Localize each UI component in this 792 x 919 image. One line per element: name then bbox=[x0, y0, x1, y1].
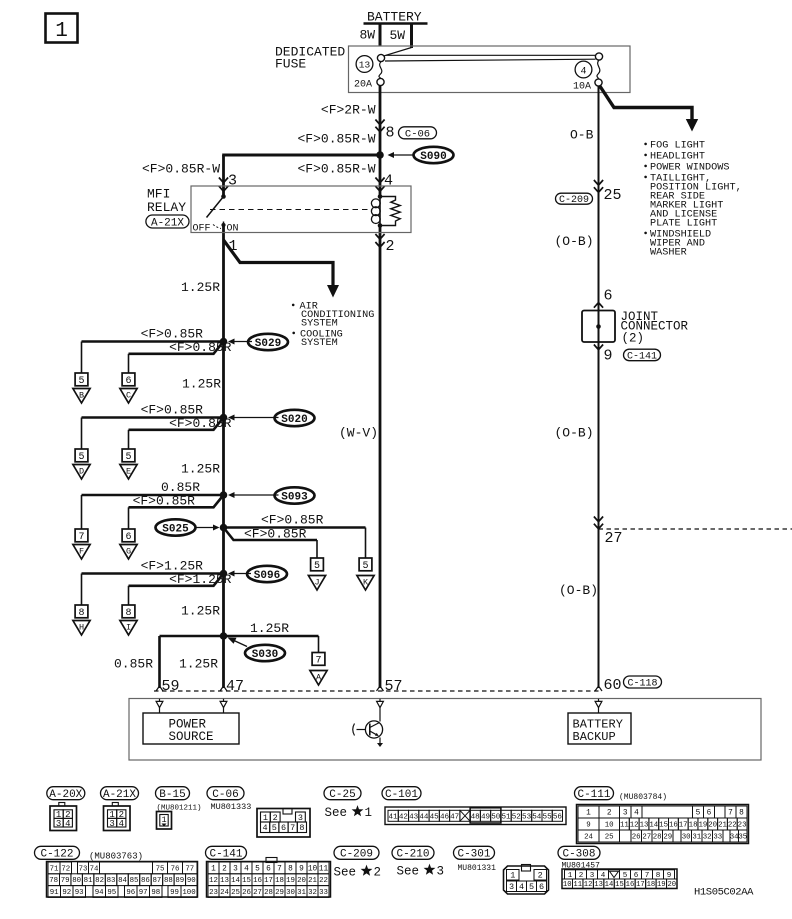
svg-text:C-141: C-141 bbox=[209, 849, 242, 861]
terminal 6 bbox=[122, 373, 135, 387]
joint connector entry chevron bbox=[594, 303, 603, 308]
wire label (F)0.85R S025-1 bbox=[261, 513, 324, 528]
connector C-25 note bbox=[325, 805, 373, 820]
svg-text:80: 80 bbox=[72, 877, 81, 885]
svg-text:5: 5 bbox=[78, 376, 84, 387]
wire foot 59 bbox=[156, 686, 163, 691]
svg-text:4: 4 bbox=[384, 173, 393, 190]
terminal 6 bbox=[122, 529, 135, 543]
svg-text:C-06: C-06 bbox=[405, 128, 430, 140]
svg-text:G: G bbox=[126, 547, 131, 557]
svg-text:C-209: C-209 bbox=[340, 849, 373, 861]
connector A-21X capsule bbox=[146, 215, 189, 229]
svg-text:8: 8 bbox=[299, 823, 304, 833]
terminal 5 K bbox=[359, 558, 372, 572]
power source box bbox=[143, 713, 239, 744]
svg-text:<F>0.85R-W: <F>0.85R-W bbox=[142, 162, 220, 177]
svg-text:91: 91 bbox=[50, 889, 59, 897]
svg-text:48: 48 bbox=[471, 813, 481, 821]
svg-text:88: 88 bbox=[164, 877, 173, 885]
svg-text:1: 1 bbox=[510, 871, 515, 881]
svg-text:FUSE: FUSE bbox=[275, 57, 306, 72]
svg-text:B-15: B-15 bbox=[159, 789, 185, 801]
svg-text:42: 42 bbox=[399, 813, 409, 821]
wire: S029 branch 1 bbox=[82, 342, 224, 374]
svg-text:<F>2R-W: <F>2R-W bbox=[321, 103, 376, 118]
svg-text:85: 85 bbox=[130, 877, 139, 885]
svg-text:(MU803784): (MU803784) bbox=[619, 793, 667, 802]
wire foot 47 bbox=[220, 686, 227, 691]
connector A-20X capsule bbox=[47, 787, 85, 801]
svg-text:17: 17 bbox=[264, 877, 273, 885]
svg-text:1.25R: 1.25R bbox=[181, 280, 220, 295]
drawing number bbox=[694, 887, 754, 899]
pin 3 bbox=[228, 173, 237, 190]
svg-text:24: 24 bbox=[220, 889, 229, 897]
ground triangle J bbox=[308, 576, 325, 591]
svg-text:86: 86 bbox=[141, 877, 150, 885]
splice S096 callout bbox=[228, 566, 287, 582]
wire label &lt;F&gt;1.25R bbox=[141, 559, 204, 574]
svg-text:52: 52 bbox=[512, 813, 522, 821]
connector C-308 capsule bbox=[558, 846, 600, 860]
joint connector box bbox=[582, 311, 615, 343]
MFI relay box bbox=[191, 186, 411, 233]
connector C-209 legend capsule bbox=[334, 846, 379, 860]
svg-text:C-06: C-06 bbox=[212, 789, 238, 801]
svg-text:13: 13 bbox=[594, 881, 603, 889]
pin 47 bbox=[226, 678, 244, 695]
svg-text:1: 1 bbox=[55, 20, 68, 43]
connector C-308 part number bbox=[562, 862, 601, 871]
ground triangle C bbox=[120, 389, 137, 404]
svg-text:82: 82 bbox=[95, 877, 104, 885]
svg-text:22: 22 bbox=[319, 877, 328, 885]
svg-text:27: 27 bbox=[253, 889, 262, 897]
svg-text:3: 3 bbox=[109, 819, 114, 829]
svg-text:20: 20 bbox=[297, 877, 306, 885]
connector C-101 pinout bbox=[385, 807, 566, 825]
svg-text:6: 6 bbox=[707, 810, 712, 818]
svg-text:H: H bbox=[79, 623, 84, 633]
wire label 1.25R #3 bbox=[181, 462, 220, 477]
svg-text:2: 2 bbox=[607, 810, 612, 818]
svg-text:7: 7 bbox=[78, 532, 84, 543]
relay ON contact bbox=[213, 222, 226, 233]
svg-text:3: 3 bbox=[509, 882, 514, 892]
relay switch pivot bbox=[221, 194, 226, 199]
connector C-308 pinout bbox=[562, 869, 677, 889]
svg-text:11: 11 bbox=[573, 881, 582, 889]
wire foot 60 bbox=[595, 686, 602, 691]
wire: S096 branch 1 bbox=[82, 574, 224, 606]
svg-text:7: 7 bbox=[277, 866, 282, 874]
wire: S020 branch 2 bbox=[129, 418, 224, 450]
svg-text:25: 25 bbox=[604, 187, 622, 204]
svg-text:C-141: C-141 bbox=[627, 351, 657, 362]
connector A-21X capsule bbox=[101, 787, 139, 801]
svg-text:1: 1 bbox=[586, 810, 591, 818]
flow chevrons at pin 2 bbox=[375, 234, 384, 247]
svg-text:ON: ON bbox=[227, 224, 239, 235]
connector pin foot 59 bbox=[156, 699, 163, 708]
svg-text:4: 4 bbox=[244, 866, 249, 874]
pin 60 bbox=[604, 677, 622, 694]
svg-text:13: 13 bbox=[359, 60, 371, 71]
splice S093 callout bbox=[228, 487, 315, 503]
connector B-15 part number bbox=[157, 805, 202, 813]
svg-text:23: 23 bbox=[209, 889, 218, 897]
fuse 4 element bbox=[595, 53, 603, 86]
svg-text:14: 14 bbox=[649, 822, 658, 830]
splice S030 node bbox=[220, 632, 228, 640]
svg-text:18: 18 bbox=[647, 881, 656, 889]
relay coil top node bbox=[378, 194, 383, 199]
pin 27 bbox=[605, 530, 623, 547]
page break dashed line right bbox=[599, 528, 792, 530]
svg-text:32: 32 bbox=[308, 889, 317, 897]
svg-text:3: 3 bbox=[298, 813, 303, 823]
svg-text:4: 4 bbox=[519, 882, 524, 892]
wire label O-B bbox=[570, 128, 594, 143]
svg-text:17: 17 bbox=[636, 881, 645, 889]
splice S020 callout bbox=[228, 410, 315, 426]
svg-text:<F>0.85R: <F>0.85R bbox=[261, 513, 324, 528]
connector C-122 pinout bbox=[47, 862, 198, 898]
connector C-210 capsule bbox=[392, 846, 434, 860]
svg-text:17: 17 bbox=[679, 822, 688, 830]
svg-text:55: 55 bbox=[543, 813, 553, 821]
svg-text:4: 4 bbox=[580, 66, 586, 77]
svg-text:C: C bbox=[126, 391, 131, 401]
svg-text:13: 13 bbox=[640, 822, 649, 830]
wire: S030 right branch bbox=[224, 636, 319, 653]
connector C-06 part number bbox=[211, 802, 252, 812]
svg-text:3: 3 bbox=[228, 173, 237, 190]
battery B+ label bbox=[367, 10, 422, 25]
svg-text:31: 31 bbox=[297, 889, 306, 897]
svg-text:3: 3 bbox=[623, 810, 628, 818]
svg-text:19: 19 bbox=[657, 881, 666, 889]
svg-text:SOURCE: SOURCE bbox=[169, 730, 214, 744]
svg-text:57: 57 bbox=[385, 678, 403, 695]
svg-text:C-210: C-210 bbox=[396, 849, 429, 861]
svg-text:E: E bbox=[126, 467, 131, 477]
connector A-20X pinout bbox=[50, 803, 77, 831]
svg-text:56: 56 bbox=[553, 813, 563, 821]
svg-text:(2): (2) bbox=[622, 332, 645, 346]
svg-text:A-21X: A-21X bbox=[103, 789, 136, 801]
svg-text:41: 41 bbox=[389, 813, 399, 821]
svg-text:75: 75 bbox=[156, 865, 165, 873]
svg-text:4: 4 bbox=[263, 823, 268, 833]
svg-text:25: 25 bbox=[605, 834, 614, 842]
svg-text:12: 12 bbox=[209, 877, 218, 885]
svg-text:47: 47 bbox=[450, 813, 459, 821]
splice S029 node bbox=[220, 338, 228, 346]
svg-text:23: 23 bbox=[738, 822, 747, 830]
svg-text:44: 44 bbox=[419, 813, 429, 821]
svg-text:2: 2 bbox=[386, 238, 395, 255]
svg-text:100: 100 bbox=[182, 889, 195, 897]
fusible link 5W lead bbox=[390, 24, 412, 49]
wire label &lt;F&gt;0.85R bbox=[169, 416, 232, 431]
svg-text:9: 9 bbox=[604, 348, 613, 365]
svg-text:S093: S093 bbox=[281, 491, 308, 503]
relay ON label bbox=[227, 224, 239, 235]
pin 25 bbox=[604, 187, 622, 204]
svg-text:1.25R: 1.25R bbox=[182, 377, 221, 392]
wire: S093 branch 1 bbox=[82, 495, 224, 529]
svg-text:A-21X: A-21X bbox=[151, 217, 184, 229]
wire: S020 branch 1 bbox=[82, 418, 224, 450]
svg-text:20A: 20A bbox=[354, 80, 372, 91]
connector C-111 part number bbox=[619, 793, 667, 802]
terminal 8 bbox=[122, 605, 135, 619]
svg-text:C-209: C-209 bbox=[559, 195, 589, 206]
svg-text:5: 5 bbox=[696, 810, 701, 818]
wire: foot into transistor bbox=[379, 708, 381, 722]
svg-text:18: 18 bbox=[689, 822, 698, 830]
svg-text:27: 27 bbox=[605, 530, 623, 547]
svg-text:BACKUP: BACKUP bbox=[573, 730, 616, 744]
svg-text:18: 18 bbox=[275, 877, 284, 885]
svg-text:4: 4 bbox=[65, 819, 70, 829]
svg-text:59: 59 bbox=[162, 678, 180, 695]
terminal 5 bbox=[75, 373, 88, 387]
svg-text:20: 20 bbox=[708, 822, 717, 830]
svg-text:2: 2 bbox=[273, 813, 278, 823]
splice S096 node bbox=[220, 570, 228, 578]
svg-text:5: 5 bbox=[314, 561, 320, 572]
dedicated fuse label bbox=[275, 45, 345, 72]
ground triangle H bbox=[73, 621, 90, 636]
wire label (F)0.85R S025-2 bbox=[244, 527, 307, 542]
svg-text:1.25R: 1.25R bbox=[181, 604, 220, 619]
page break dashed line bottom bbox=[154, 690, 599, 692]
wire label (F)0.85R-W left bbox=[142, 162, 220, 177]
A/C load list bbox=[292, 302, 374, 350]
wire: feet into power source bbox=[160, 708, 224, 713]
svg-text:83: 83 bbox=[107, 877, 116, 885]
connector C-301 capsule bbox=[454, 846, 495, 860]
wire: S025 branch 2 bbox=[224, 528, 318, 559]
svg-text:9: 9 bbox=[299, 866, 304, 874]
svg-text:See: See bbox=[397, 865, 420, 879]
svg-text:14: 14 bbox=[231, 877, 240, 885]
fuse 4 10A rating bbox=[573, 82, 591, 93]
connector pin foot 60 bbox=[595, 699, 602, 708]
svg-text:S020: S020 bbox=[281, 414, 307, 426]
svg-text:5: 5 bbox=[272, 823, 277, 833]
svg-text:11: 11 bbox=[620, 822, 629, 830]
terminal 8 bbox=[75, 605, 88, 619]
wire: fusebox bus lower bbox=[385, 59, 596, 61]
svg-text:13: 13 bbox=[220, 877, 229, 885]
svg-text:92: 92 bbox=[62, 889, 71, 897]
svg-text:16: 16 bbox=[669, 822, 678, 830]
svg-text:5W: 5W bbox=[390, 28, 406, 43]
svg-text:HEADLIGHT: HEADLIGHT bbox=[650, 152, 705, 163]
svg-text:26: 26 bbox=[632, 834, 641, 842]
wire: MFI switch line (left) bbox=[222, 155, 225, 688]
wire label 1.25R S030 bbox=[250, 621, 289, 636]
ground triangle K bbox=[357, 576, 374, 591]
connector B-15 capsule bbox=[156, 787, 190, 801]
ground triangle G bbox=[120, 545, 137, 560]
svg-text:8: 8 bbox=[386, 125, 395, 142]
connector C-101 capsule bbox=[382, 787, 421, 801]
ETACS unit box bbox=[129, 699, 761, 761]
svg-text:90: 90 bbox=[187, 877, 196, 885]
svg-text:6: 6 bbox=[266, 866, 271, 874]
splice S020 node bbox=[220, 414, 228, 422]
svg-text:1: 1 bbox=[365, 806, 373, 820]
wire label 0.85R bbox=[161, 480, 200, 495]
wire: S030 left branch to pin 59 bbox=[160, 636, 224, 688]
svg-text:5: 5 bbox=[529, 882, 534, 892]
joint connector label bbox=[621, 310, 689, 346]
svg-text:C-101: C-101 bbox=[385, 789, 418, 801]
wire foot 57 bbox=[377, 686, 384, 691]
svg-text:14: 14 bbox=[605, 881, 614, 889]
svg-text:2: 2 bbox=[538, 871, 543, 881]
backup transistor symbol bbox=[353, 721, 383, 747]
wire label (O-B) lower bbox=[559, 583, 598, 598]
terminal 5 bbox=[122, 449, 135, 463]
wire label 1.25R #4 bbox=[181, 604, 220, 619]
svg-text:6: 6 bbox=[125, 376, 131, 387]
relay coil bottom node bbox=[378, 223, 383, 228]
wire label &lt;F&gt;0.85R bbox=[141, 327, 204, 342]
svg-text:See: See bbox=[325, 806, 348, 820]
svg-text:25: 25 bbox=[231, 889, 240, 897]
svg-text:53: 53 bbox=[522, 813, 532, 821]
svg-text:See: See bbox=[334, 866, 357, 880]
svg-text:1: 1 bbox=[263, 813, 268, 823]
svg-text:29: 29 bbox=[663, 834, 672, 842]
dedicated fuse box bbox=[349, 46, 631, 93]
svg-text:6: 6 bbox=[539, 882, 544, 892]
fuse 4 circled number bbox=[575, 61, 592, 78]
wire label &lt;F&gt;0.85R bbox=[133, 493, 196, 508]
svg-text:A: A bbox=[316, 673, 322, 683]
svg-text:C-301: C-301 bbox=[457, 849, 490, 861]
svg-text:30: 30 bbox=[682, 834, 691, 842]
wire: heavy branch to MFI switch bbox=[222, 154, 380, 157]
svg-text:6: 6 bbox=[281, 823, 286, 833]
svg-text:RELAY: RELAY bbox=[147, 200, 186, 215]
wire label (W-V) bbox=[339, 426, 378, 441]
svg-text:C-118: C-118 bbox=[627, 679, 657, 690]
wire: S029 branch 2 bbox=[129, 342, 224, 374]
splice S025 callout bbox=[156, 519, 220, 535]
svg-text:77: 77 bbox=[185, 865, 194, 873]
svg-text:95: 95 bbox=[107, 889, 116, 897]
svg-text:S096: S096 bbox=[254, 570, 280, 582]
svg-text:D: D bbox=[79, 467, 84, 477]
wire: fusebox bus upper bbox=[386, 54, 596, 56]
svg-text:89: 89 bbox=[175, 877, 184, 885]
pin 8 bbox=[386, 125, 395, 142]
svg-text:15: 15 bbox=[615, 881, 624, 889]
fuse 13 20A rating bbox=[354, 80, 372, 91]
svg-text:3: 3 bbox=[437, 865, 445, 879]
pin 59 bbox=[162, 678, 180, 695]
svg-text:1.25R: 1.25R bbox=[179, 657, 218, 672]
wire label (F)0.85R-W right bbox=[297, 162, 375, 177]
svg-text:19: 19 bbox=[286, 877, 295, 885]
connector C-06 capsule bbox=[399, 127, 437, 141]
svg-text:3: 3 bbox=[56, 819, 61, 829]
svg-text:I: I bbox=[126, 623, 131, 633]
wire: 5W to fuse 13 diagonal bbox=[384, 48, 411, 56]
svg-text:97: 97 bbox=[139, 889, 148, 897]
svg-text:8: 8 bbox=[125, 608, 131, 619]
svg-text:8: 8 bbox=[288, 866, 293, 874]
wire label (O-B) middle bbox=[555, 426, 594, 441]
wire label (O-B) upper bbox=[555, 234, 594, 249]
svg-text:<F>0.85R-W: <F>0.85R-W bbox=[297, 132, 375, 147]
wire label &lt;F&gt;0.85R bbox=[169, 340, 232, 355]
svg-text:11: 11 bbox=[319, 866, 329, 874]
svg-text:1.25R: 1.25R bbox=[250, 621, 289, 636]
joint connector exit chevron bbox=[594, 345, 603, 350]
svg-text:46: 46 bbox=[440, 813, 450, 821]
svg-text:84: 84 bbox=[118, 877, 127, 885]
pin 57 bbox=[385, 678, 403, 695]
svg-text:12: 12 bbox=[584, 881, 593, 889]
svg-text:45: 45 bbox=[430, 813, 440, 821]
wire: main 2R-W / W-V line (center) bbox=[379, 86, 382, 688]
svg-text:K: K bbox=[363, 578, 369, 588]
wire: battery bus bar bbox=[364, 22, 428, 25]
svg-text:5: 5 bbox=[255, 866, 260, 874]
connector C-122 part number bbox=[89, 852, 143, 862]
svg-text:C-122: C-122 bbox=[40, 849, 73, 861]
connector B-15 pinout bbox=[157, 812, 172, 830]
svg-text:35: 35 bbox=[738, 834, 747, 842]
svg-text:26: 26 bbox=[242, 889, 251, 897]
wire: heavy feed to loads from fuse 4 bbox=[600, 86, 699, 132]
svg-text:WASHER: WASHER bbox=[650, 248, 687, 259]
ground triangle I bbox=[120, 621, 137, 636]
svg-text:8W: 8W bbox=[360, 28, 376, 43]
connector C-141 legend capsule bbox=[206, 846, 247, 860]
svg-text:8: 8 bbox=[78, 608, 84, 619]
svg-text:1.25R: 1.25R bbox=[181, 462, 220, 477]
svg-text:28: 28 bbox=[653, 834, 662, 842]
svg-text:33: 33 bbox=[713, 834, 722, 842]
svg-text:15: 15 bbox=[242, 877, 251, 885]
flow chevrons on 2R-W bbox=[375, 120, 384, 132]
terminal 7 bbox=[75, 529, 88, 543]
svg-text:B: B bbox=[79, 391, 84, 401]
svg-text:87: 87 bbox=[152, 877, 161, 885]
svg-text:33: 33 bbox=[319, 889, 328, 897]
connector C-118 capsule bbox=[624, 676, 662, 690]
svg-text:5: 5 bbox=[125, 452, 131, 463]
wire label (F)0.85R-W upper bbox=[297, 132, 375, 147]
svg-text:8: 8 bbox=[739, 810, 744, 818]
relay OFF label bbox=[193, 224, 211, 235]
connector C-06 pinout bbox=[257, 809, 310, 838]
connector C-111 pinout bbox=[577, 805, 749, 844]
svg-text:J: J bbox=[314, 578, 319, 588]
svg-text:S029: S029 bbox=[255, 338, 281, 350]
pin 4 bbox=[384, 173, 393, 190]
svg-text:7: 7 bbox=[315, 655, 321, 666]
